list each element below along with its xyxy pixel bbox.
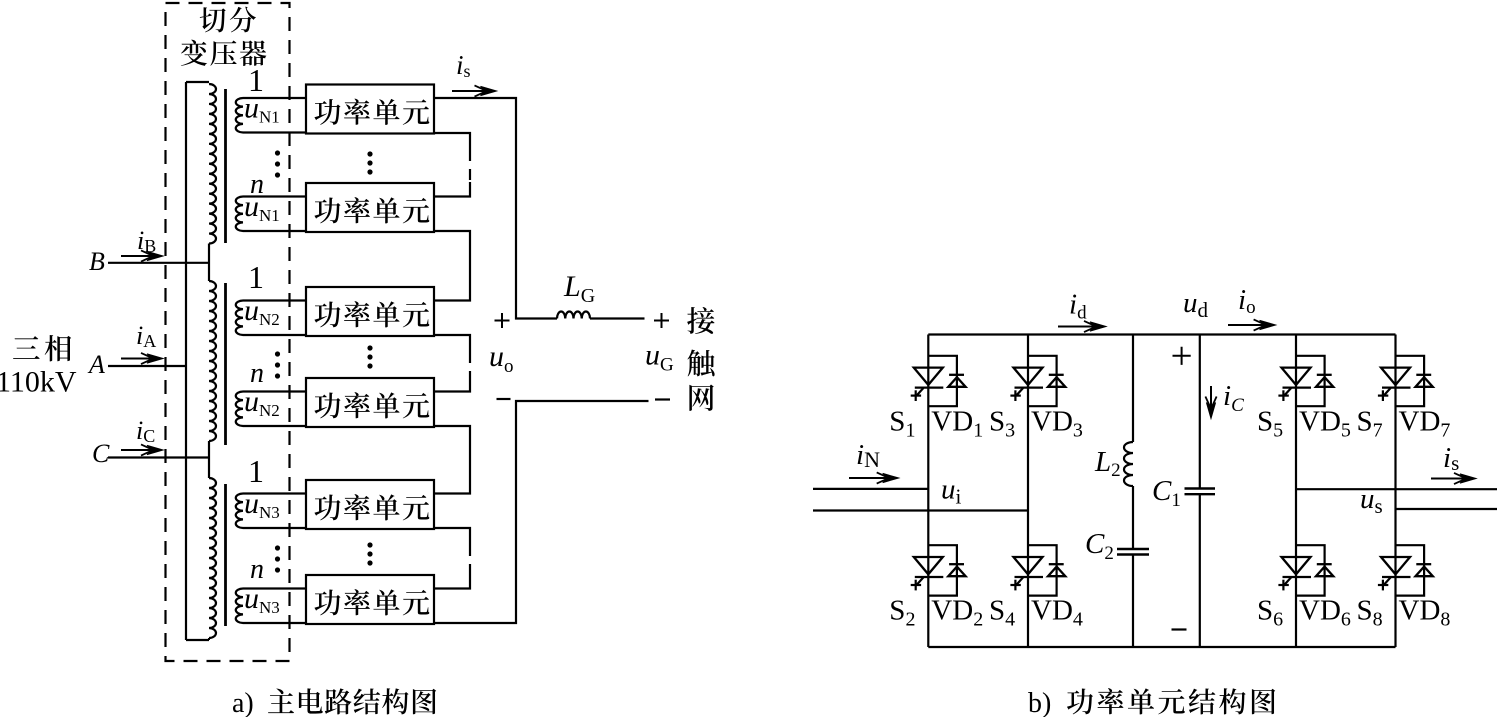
arrow: current i_d bbox=[1058, 321, 1106, 332]
power unit box 4 功率单元 bbox=[306, 378, 434, 427]
transformer core bar 2 bbox=[224, 283, 227, 445]
wire: primary coil tail at C tap bbox=[208, 441, 210, 478]
minus sign u_G bbox=[655, 398, 670, 400]
wire: output positive rail from unit1 bbox=[434, 98, 557, 319]
arrow: current i_s (part b) bbox=[1431, 473, 1476, 484]
ellipsis dots between power unit 3 and 4 bbox=[367, 345, 372, 368]
wire: DC top rail bbox=[928, 333, 1395, 335]
svg-text:b): b) bbox=[1028, 688, 1051, 717]
wire: primary coil tail at B tap bbox=[208, 244, 210, 282]
dashed enclosure: split transformer 切分变压器 bbox=[166, 3, 290, 661]
wire: secondary 3 top lead bbox=[243, 299, 306, 301]
thyristor switch S4 with diode VD4 bbox=[1010, 545, 1065, 595]
transformer core bar 3 bbox=[224, 484, 227, 626]
label 触 (catenary line 2) bbox=[688, 349, 715, 376]
text 功率单元 (unit 4) bbox=[314, 392, 429, 418]
inductor L_G bbox=[557, 312, 590, 319]
wire: phase C line bbox=[108, 456, 209, 458]
primary winding coil section 3 bbox=[209, 478, 216, 638]
wire: output negative rail from unit6 bbox=[434, 401, 649, 623]
wire: secondary 6 bottom lead bbox=[243, 622, 306, 624]
wire: secondary 5 bottom lead bbox=[243, 527, 306, 529]
svg-text:B: B bbox=[89, 247, 105, 276]
power unit box 1 功率单元 bbox=[306, 85, 434, 134]
wire: series link unit5-unit6 (upper) bbox=[434, 528, 470, 545]
arrow: current i_N bbox=[849, 472, 899, 483]
arrow: current i_B bbox=[121, 250, 163, 261]
wire: series link unit3-unit4 (lower) bbox=[434, 377, 470, 392]
power unit box 5 功率单元 bbox=[306, 480, 434, 529]
wire: primary left vertical (phase A bus) bbox=[185, 82, 187, 640]
arrow: current i_A bbox=[121, 353, 163, 364]
minus sign u_d bbox=[1172, 628, 1187, 630]
wire: series link unit5-unit6 (lower) bbox=[434, 573, 470, 589]
thyristor switch S6 with diode VD6 bbox=[1278, 545, 1333, 595]
wire: C1 branch lower bbox=[1199, 494, 1201, 647]
wire: filter branch upper bbox=[1132, 335, 1134, 443]
transformer core bar 1 bbox=[224, 89, 227, 243]
capacitor C2 bottom plate bbox=[1117, 553, 1149, 555]
power unit box 3 功率单元 bbox=[306, 287, 434, 336]
wire: secondary 3 bottom lead bbox=[243, 334, 306, 336]
wire: bridge leg S3/S4 bbox=[1027, 335, 1029, 648]
arrow: current i_C (part b) bbox=[1205, 386, 1216, 419]
wire: secondary 4 bottom lead bbox=[243, 425, 306, 427]
wire: series link unit2-unit3 bbox=[434, 231, 470, 301]
caption 功率单元结构图 bbox=[1067, 688, 1275, 714]
wire: secondary 2 top lead bbox=[243, 195, 306, 197]
primary winding coil section 1 (phase B-A) bbox=[209, 84, 216, 244]
capacitor C1 top plate bbox=[1185, 487, 1216, 489]
wire: phase B line bbox=[108, 262, 209, 264]
wire: filter branch middle bbox=[1132, 486, 1134, 549]
wire: AC input upper (to S1/S2 midpoint) bbox=[813, 488, 928, 490]
svg-text:a): a) bbox=[232, 688, 254, 717]
wire: primary bottom connector bbox=[186, 639, 209, 641]
wire: series link unit4-unit5 bbox=[434, 426, 470, 494]
capacitor C2 top plate bbox=[1117, 548, 1149, 550]
wire: series link unit5-unit6 dashed middle bbox=[469, 545, 471, 573]
ellipsis dots between secondary 1 and 2 bbox=[275, 150, 280, 177]
wire: positive rail to grid bbox=[590, 317, 645, 319]
wire: series link unit3-unit4 (upper) bbox=[434, 335, 470, 352]
text 功率单元 (unit 5) bbox=[314, 494, 429, 520]
wire: AC input lower (to S3/S4 midpoint) bbox=[813, 509, 1028, 511]
thyristor switch S5 with diode VD5 bbox=[1278, 356, 1333, 406]
wire: series link unit3-unit4 dashed middle bbox=[469, 352, 471, 377]
plus sign u_d bbox=[1173, 347, 1191, 365]
text 功率单元 (unit 1) bbox=[314, 99, 429, 125]
arrow: current i_C bbox=[121, 444, 163, 455]
label 三相 bbox=[13, 335, 71, 361]
wire: AC output upper (from S5/S6 midpoint) bbox=[1296, 488, 1497, 490]
wire: secondary 6 top lead bbox=[243, 587, 306, 589]
arrow: current i_o bbox=[1228, 319, 1276, 330]
capacitor C1 bottom plate bbox=[1185, 493, 1216, 495]
svg-text:1: 1 bbox=[248, 259, 264, 295]
svg-text:A: A bbox=[87, 350, 105, 379]
power unit box 6 功率单元 bbox=[306, 575, 434, 624]
svg-text:1: 1 bbox=[248, 453, 264, 489]
text 功率单元 (unit 3) bbox=[314, 301, 429, 327]
caption 主电路结构图 bbox=[268, 688, 436, 714]
wire: series link unit1-unit2 (lower) bbox=[434, 182, 470, 197]
ellipsis dots between secondary 3 and 4 bbox=[275, 351, 280, 378]
plus sign u_G bbox=[654, 313, 669, 328]
wire: filter branch lower bbox=[1132, 555, 1134, 648]
svg-text:110kV: 110kV bbox=[0, 366, 77, 399]
arrow: current i_s (part a) bbox=[452, 85, 497, 96]
ellipsis dots between power unit 5 and 6 bbox=[367, 542, 372, 565]
wire: bridge leg S1/S2 bbox=[927, 335, 929, 648]
plus sign u_o bbox=[495, 313, 510, 328]
wire: secondary 5 top lead bbox=[243, 492, 306, 494]
wire: phase A line bbox=[108, 365, 186, 367]
wire: AC output lower (from S7/S8 midpoint) bbox=[1396, 508, 1498, 510]
label 变压器 bbox=[181, 40, 267, 66]
wire: secondary 2 bottom lead bbox=[243, 230, 306, 232]
wire: secondary 1 top lead bbox=[243, 97, 306, 99]
inductor L2 bbox=[1124, 442, 1133, 486]
wire: series link unit1-unit2 dashed middle bbox=[469, 150, 471, 182]
ellipsis dots between power unit 1 and 2 bbox=[367, 151, 372, 174]
svg-text:C: C bbox=[92, 439, 110, 468]
thyristor switch S3 with diode VD3 bbox=[1010, 356, 1065, 406]
power unit box 2 功率单元 bbox=[306, 183, 434, 232]
secondary winding u_N3 unit 1 bbox=[236, 494, 243, 528]
primary winding coil section 2 (phase A-C) bbox=[209, 281, 216, 441]
text 功率单元 (unit 6) bbox=[314, 589, 429, 615]
label 网 (catenary line 3) bbox=[689, 385, 713, 411]
secondary winding u_N1 unit n bbox=[236, 197, 243, 231]
secondary winding u_N2 unit 1 bbox=[236, 301, 243, 335]
secondary winding u_N3 unit n bbox=[236, 589, 243, 623]
secondary winding u_N2 unit n bbox=[236, 392, 243, 426]
text 功率单元 (unit 2) bbox=[314, 197, 429, 223]
label 切分 bbox=[200, 7, 256, 33]
thyristor switch S1 with diode VD1 bbox=[911, 356, 966, 406]
wire: secondary 4 top lead bbox=[243, 390, 306, 392]
wire: primary top connector bbox=[186, 81, 209, 83]
thyristor switch S7 with diode VD7 bbox=[1378, 356, 1433, 406]
wire: bridge leg S7/S8 bbox=[1394, 335, 1396, 648]
wire: DC bottom rail bbox=[928, 646, 1395, 648]
wire: secondary 1 bottom lead bbox=[243, 131, 306, 133]
minus sign u_o bbox=[497, 398, 511, 400]
secondary winding u_N1 unit 1 bbox=[236, 98, 243, 132]
wire: bridge leg S5/S6 bbox=[1295, 335, 1297, 648]
wire: series link unit1-unit2 (upper) bbox=[434, 133, 470, 150]
ellipsis dots between secondary 5 and 6 bbox=[275, 545, 280, 572]
thyristor switch S2 with diode VD2 bbox=[911, 545, 966, 595]
svg-text:n: n bbox=[250, 554, 264, 585]
wire: C1 branch upper bbox=[1199, 335, 1201, 489]
thyristor switch S8 with diode VD8 bbox=[1378, 545, 1433, 595]
label 接 (catenary line 1) bbox=[687, 307, 714, 334]
